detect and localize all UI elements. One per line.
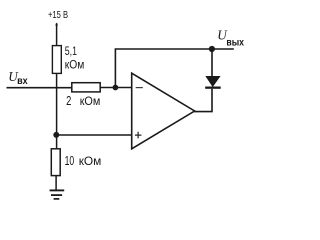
junction node B	[53, 132, 59, 138]
svg-text:2: 2	[66, 93, 71, 108]
wire R1 bottom down to lower junction and R3	[56, 73, 58, 148]
wire R2 to inverting input	[100, 87, 131, 89]
wire diode to op-amp output corner	[194, 89, 212, 112]
svg-text:10: 10	[65, 154, 75, 168]
svg-text:5,1: 5,1	[65, 45, 77, 58]
non-inverting input wire	[57, 134, 132, 136]
input wire U_in to R2	[7, 87, 73, 89]
wire R3 to ground	[55, 176, 57, 190]
ground bar 3	[54, 198, 60, 200]
junction node A (feedback tap)	[113, 85, 119, 91]
ground bar 2	[51, 194, 62, 196]
svg-text:кОм: кОм	[79, 154, 102, 168]
resistor R1 5.1 kOhm	[52, 46, 61, 74]
svg-text:+15 В: +15 В	[48, 10, 68, 21]
op-amp U1 triangle	[132, 73, 195, 149]
svg-text:вых: вых	[226, 37, 244, 48]
resistor R3 10 kOhm	[51, 149, 60, 176]
ground bar 1	[50, 189, 65, 191]
svg-text:вх: вх	[17, 76, 28, 87]
feedback wire up and across to output node	[115, 49, 233, 88]
wire output node down to diode	[211, 49, 213, 77]
op-amp plus input sign	[135, 132, 142, 139]
op-amp minus input sign	[136, 87, 143, 89]
junction node output	[209, 46, 215, 52]
diode VD anode triangle	[206, 76, 220, 86]
svg-text:кОм: кОм	[80, 94, 101, 108]
wire from +15V down to R1	[56, 23, 58, 46]
svg-text:кОм: кОм	[65, 57, 85, 71]
resistor R2 2 kOhm	[72, 83, 100, 92]
supply wire tip	[55, 23, 58, 26]
diode VD cathode bar	[205, 87, 221, 89]
